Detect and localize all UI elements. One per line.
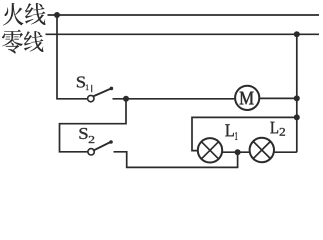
switch S2	[88, 140, 113, 155]
label L2	[270, 122, 285, 136]
node junction of neutral line and right vertical	[294, 31, 300, 37]
motor M	[235, 86, 259, 110]
wire right vertical up to neutral line	[296, 34, 298, 152]
wire live line (top horizontal)	[48, 14, 320, 16]
wire neutral line (second horizontal)	[46, 33, 320, 35]
wire jog from S1 junction down and left to S2 branch	[60, 99, 127, 152]
node junction of live line and left feed	[54, 12, 60, 18]
label 火线 (live wire)	[3, 3, 46, 26]
node lamps midpoint junction	[235, 149, 241, 155]
wire between lamp L1 and lamp L2	[222, 151, 250, 153]
wire stray tick above S1 pivot	[91, 85, 93, 93]
wire left feed vertical from live line down to S1	[57, 15, 88, 99]
label L1	[225, 124, 237, 139]
lamp L1	[198, 138, 222, 162]
wire L2 right side to right vertical	[274, 151, 297, 153]
node S1 output junction	[123, 96, 129, 102]
wire S2 output down to bottom rail and right to lamps midpoint	[114, 152, 238, 168]
label 零线 (neutral wire)	[2, 30, 44, 54]
wire motor output to right vertical	[259, 97, 297, 99]
lamp L2	[250, 138, 274, 162]
node motor-right junction	[294, 95, 300, 101]
wire S1 output to motor	[113, 98, 236, 100]
label S2	[80, 128, 95, 143]
switch S1	[88, 87, 114, 102]
node lamp rail and right vertical junction	[294, 114, 300, 120]
wire lamp branch left side up and over (top rail of lamp loop)	[192, 117, 297, 150]
label S1	[77, 77, 89, 91]
